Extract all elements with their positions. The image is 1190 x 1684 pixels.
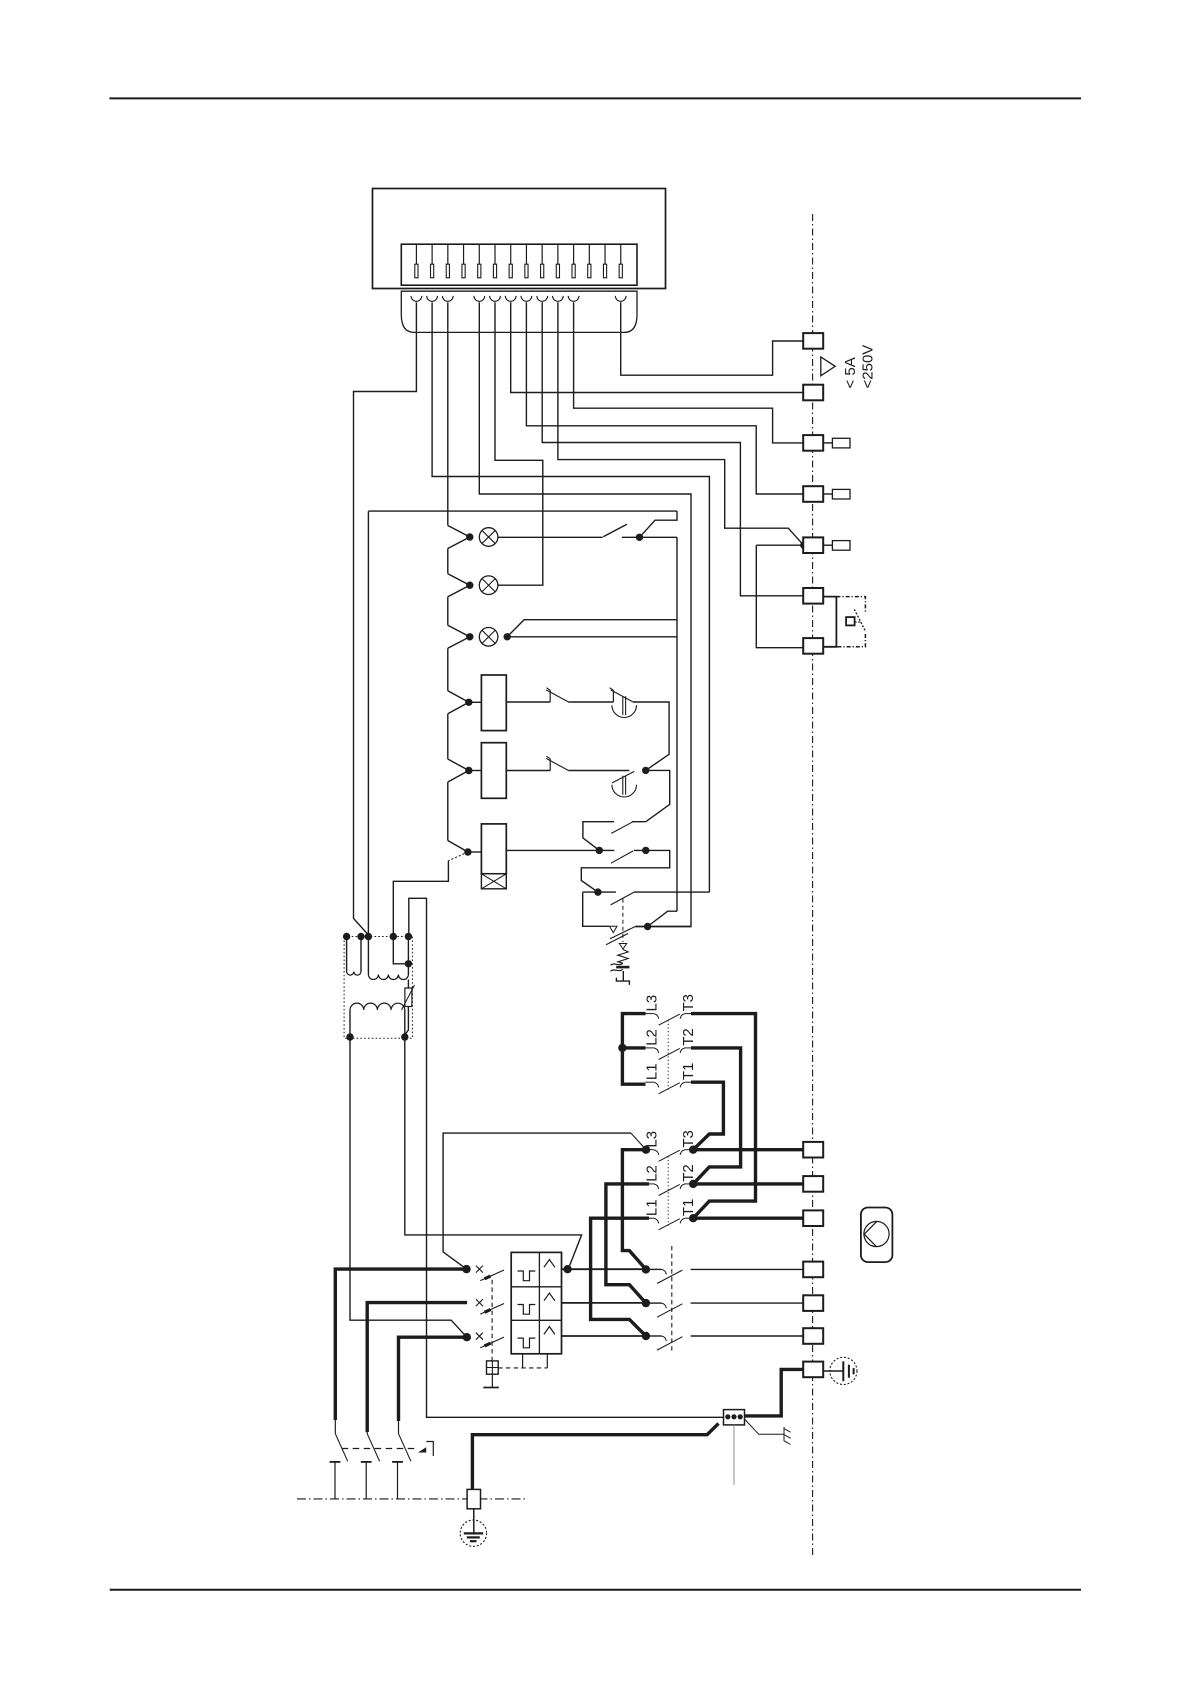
- K1 T3 wire to K2 T1: [691, 1014, 756, 1219]
- overload thermal elements: [518, 1271, 536, 1348]
- supply cord: [733, 1425, 735, 1485]
- wire pin9 to terminal T6: [542, 332, 803, 595]
- door switch plunger: [846, 617, 855, 625]
- transformer secondary tap: [393, 937, 408, 964]
- rail segment: [447, 549, 449, 574]
- junction lamp H3 output: [504, 633, 511, 640]
- top rule: [109, 97, 1081, 99]
- K1 contact row with NC contact and cam contact: [506, 701, 550, 703]
- connector plug housing: [401, 291, 637, 332]
- K1 T2 wire to K2 T2: [691, 1048, 741, 1184]
- K2 L2 feed wire: [606, 1184, 649, 1303]
- wire pin8 to terminal T4: [526, 332, 803, 494]
- mains L3 wire to overload pole3: [399, 1337, 467, 1421]
- svg-text:L2: L2: [644, 1165, 661, 1182]
- contactor K1 pole L2-T2: [646, 1047, 654, 1049]
- terminal B6: [803, 1328, 823, 1344]
- svg-text:L2: L2: [644, 1029, 661, 1046]
- transformer terminal dots: [343, 933, 350, 940]
- chassis earth stud: [467, 1489, 480, 1508]
- svg-text:T1: T1: [680, 1063, 697, 1081]
- rail segment: [447, 597, 449, 626]
- svg-text:L1: L1: [644, 1199, 661, 1216]
- terminal T5: [803, 537, 823, 553]
- K2 L1 feed wire: [591, 1218, 649, 1336]
- junction pressure switch: [644, 923, 651, 930]
- K3 contact row: [506, 849, 614, 851]
- contactor K2 pole L1-T1: [649, 1217, 654, 1219]
- bottom rule: [110, 1589, 1081, 1591]
- svg-text:L1: L1: [644, 1063, 661, 1080]
- neutral link transformer to S1: [368, 511, 677, 936]
- mains L2 wire to overload pole2: [367, 1303, 467, 1432]
- transformer T1 dotted enclosure: [344, 937, 412, 1039]
- selector switch row 3: [646, 1335, 662, 1337]
- pressure switch spring: [618, 950, 628, 964]
- primary wire to overload right node: [405, 1037, 582, 1269]
- svg-text:T3: T3: [680, 994, 697, 1012]
- svg-text:T1: T1: [680, 1199, 697, 1217]
- wire pin5 to pressure switch contact: [479, 332, 691, 926]
- mains supply pins: [330, 1462, 403, 1499]
- overload magnetic chevrons: [544, 1260, 555, 1335]
- svg-text:T2: T2: [680, 1028, 697, 1046]
- K2 T1 wire to terminal B3: [693, 1216, 803, 1219]
- svg-text:T3: T3: [680, 1130, 697, 1148]
- terminal T1: [803, 333, 823, 349]
- lamp H1: [479, 528, 498, 547]
- transformer secondary winding 1: [347, 937, 361, 972]
- door switch dash-dot enclosure: [836, 597, 865, 647]
- overload trip dashed link: [491, 1280, 493, 1361]
- supply rail junction lamp H3: [448, 625, 470, 637]
- cable anchorage block: [724, 1410, 745, 1425]
- relay coil K3: [448, 841, 468, 853]
- terminal B5: [803, 1295, 823, 1311]
- wire pin14 to terminal T1: [621, 332, 804, 375]
- contactor K1 mechanical link: [667, 1020, 669, 1089]
- transformer primary winding: [350, 1003, 405, 1010]
- earth terminal circle at B7: [823, 1370, 843, 1372]
- overload outputs to selector switches: [562, 1268, 646, 1270]
- svg-text:T2: T2: [680, 1164, 697, 1182]
- svg-text:< 5A: < 5A: [842, 357, 859, 388]
- selector switch row 2: [646, 1302, 662, 1304]
- relay rail return to transformer: [448, 852, 468, 861]
- terminal T6: [803, 588, 823, 604]
- rail segment: [447, 782, 449, 841]
- protective earth symbol: [473, 1509, 475, 1533]
- control module A1 outer box: [373, 189, 666, 289]
- supply boundary dash-dot line: [297, 1498, 525, 1500]
- transformer secondary winding 2: [368, 937, 408, 975]
- terminal B3: [803, 1210, 823, 1226]
- spade lug at T4: [823, 493, 832, 495]
- connector X1 pins 1-14: [415, 244, 623, 278]
- mains switch handle symbol: [426, 1442, 433, 1457]
- overload breaker F1 box: [511, 1252, 561, 1353]
- contactor K1 pole L1-T1: [646, 1081, 654, 1083]
- K3 auxiliary contact: [583, 822, 646, 851]
- overload X marks and levers: [476, 1266, 504, 1348]
- contactor K2 mechanical link: [667, 1156, 669, 1226]
- K3 coil X box: [481, 874, 506, 889]
- varistor R1: [405, 988, 412, 1007]
- lamp H1 switch S1 row: [498, 511, 677, 537]
- secondary to mains block N wire: [409, 898, 724, 1417]
- overload test element: [487, 1361, 499, 1374]
- door interlock link T6-T7: [823, 597, 836, 647]
- overload input dots: [462, 1265, 470, 1273]
- rail segment: [447, 714, 449, 759]
- K2 contact row with NC contact and cam contact: [506, 770, 550, 772]
- door switch lever: [854, 609, 866, 632]
- rail segment: [447, 648, 449, 691]
- K2 L3 feed wire: [622, 1150, 646, 1270]
- supply rail junction lamp H2: [448, 574, 470, 586]
- lamp H3: [479, 628, 498, 647]
- pressure switch S3 upper contact: [583, 891, 616, 893]
- terminal T7: [803, 638, 823, 654]
- PE wire to chassis stud: [472, 1424, 718, 1490]
- mains switch dashed link: [342, 1448, 417, 1450]
- wire pin1 to transformer node: [354, 332, 417, 936]
- pressure switch left loop: [583, 892, 609, 926]
- pump symbol M1: [861, 1208, 893, 1263]
- K1 T1 wire to K2 T3: [691, 1082, 723, 1150]
- junction T5: [800, 542, 807, 549]
- terminal T2: [803, 385, 823, 401]
- junction S1: [636, 534, 643, 541]
- terminal B4: [803, 1262, 823, 1278]
- contactor K2 pole L2-T2: [649, 1183, 654, 1185]
- appliance boundary bus line: [812, 214, 814, 1557]
- supply rail junction lamp H1: [448, 526, 470, 538]
- mains L1 wire to overload pole1: [335, 1269, 466, 1420]
- wire pin7 to terminal T2: [511, 332, 804, 392]
- wire pin2 to pressure switch: [432, 332, 709, 892]
- pressure switch triangle 2: [619, 944, 626, 950]
- wire pin10 to terminal T5: [558, 332, 804, 545]
- wire pin11 to terminal T3: [574, 332, 804, 443]
- wire pin3 supply rail start: [447, 332, 449, 525]
- PE wire to terminal B7: [745, 1369, 803, 1416]
- pressure sensor symbol: [611, 963, 623, 965]
- spade lug at T5: [823, 544, 832, 546]
- K2 T3 wire to terminal B1: [693, 1148, 803, 1151]
- selector switch row 1: [646, 1268, 662, 1270]
- contactor K1 input bus: [622, 1014, 645, 1085]
- pressure switch triangle 1: [610, 926, 618, 932]
- overload auxiliary dashed link: [498, 1367, 547, 1369]
- terminal B2: [803, 1176, 823, 1192]
- svg-text:L3: L3: [644, 1131, 661, 1148]
- thin wire breaker to K2 L3: [443, 1133, 631, 1269]
- terminal B1: [803, 1142, 823, 1158]
- mains switch Q1 levers: [335, 1420, 411, 1461]
- svg-text:L3: L3: [644, 995, 661, 1012]
- contactor K2 pole L3-T3: [646, 1149, 654, 1151]
- connector X1 body: [401, 244, 637, 285]
- contactor K1 pole L3-T3: [646, 1013, 654, 1015]
- wire pin6 to lamp H2: [495, 332, 543, 585]
- terminal T4: [803, 486, 823, 502]
- wire T5-T7 link: [756, 545, 803, 648]
- selector switch dashed link: [671, 1246, 673, 1352]
- neutral drop to lamp H3 row: [507, 537, 677, 911]
- primary wire to overload pole 3: [350, 1037, 467, 1337]
- terminal T3: [803, 435, 823, 451]
- pressure switch mechanical dashed link: [622, 899, 624, 942]
- svg-text:<250V: <250V: [860, 345, 877, 389]
- wire crimp cups in plug: [411, 296, 626, 333]
- lamp H2: [479, 576, 498, 595]
- functional earth symbol at cable block: [745, 1420, 784, 1435]
- pressure switch lower contact levers: [610, 927, 635, 939]
- spade lug at T3: [823, 442, 832, 444]
- relay coil K2: [448, 759, 469, 771]
- link from lamp rail to pressure switch: [648, 911, 677, 926]
- fuse rating triangle marker: [821, 357, 835, 376]
- relay coil K1: [448, 691, 469, 703]
- K2 T2 wire to terminal B2: [693, 1182, 803, 1185]
- terminal B7: [803, 1362, 823, 1378]
